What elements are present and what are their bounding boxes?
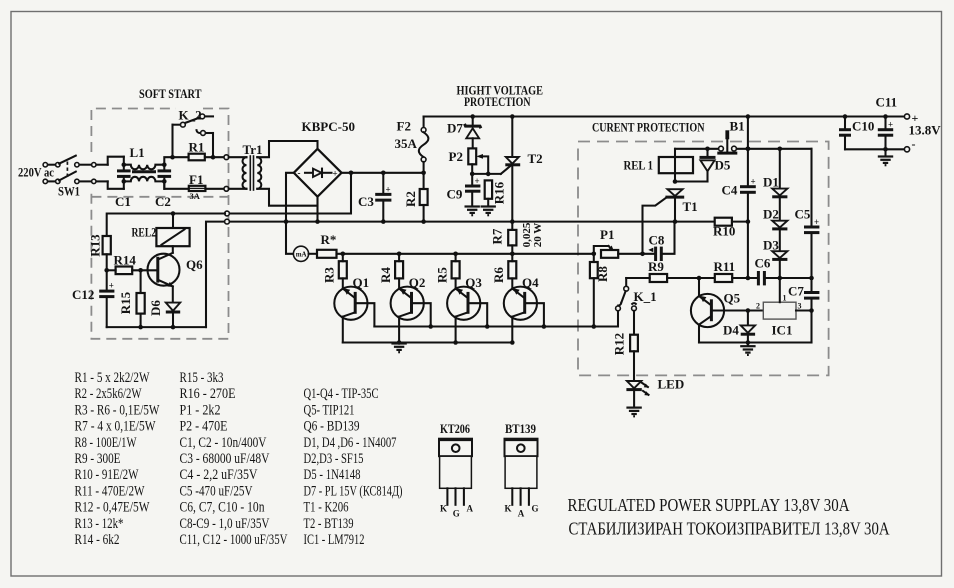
svg-text:R1 - 5 x 2k2/2W: R1 - 5 x 2k2/2W — [75, 370, 151, 386]
svg-text:D2: D2 — [763, 207, 779, 222]
capacitor C3 — [358, 171, 391, 224]
resistor R6 — [491, 254, 516, 283]
svg-text:C6: C6 — [755, 256, 771, 271]
svg-text:C2: C2 — [155, 194, 171, 209]
svg-text:C3: C3 — [358, 194, 374, 209]
svg-text:R13: R13 — [87, 234, 102, 257]
svg-text:D5: D5 — [715, 158, 731, 173]
svg-text:T1 - K206: T1 - K206 — [304, 500, 349, 516]
svg-text:Q6 - BD139: Q6 - BD139 — [304, 419, 360, 435]
emitter resistor chain line — [337, 253, 594, 255]
svg-text:G: G — [453, 509, 460, 519]
svg-text:BT139: BT139 — [505, 421, 536, 436]
ground under D4 — [740, 346, 755, 355]
parts list column 2 — [180, 370, 288, 548]
ground under C11 — [878, 157, 893, 166]
diode D2 — [763, 207, 787, 252]
transistor Q6 — [148, 246, 204, 302]
svg-text:R14: R14 — [114, 253, 137, 268]
svg-text:C10: C10 — [852, 119, 874, 134]
svg-text:R16 - 270E: R16 - 270E — [180, 386, 236, 402]
svg-text:C11, C12 - 1000 uF/35V: C11, C12 - 1000 uF/35V — [180, 532, 288, 548]
capacitor C7 — [788, 278, 819, 343]
resistor R15 — [118, 270, 145, 327]
svg-text:IC1: IC1 — [772, 323, 793, 338]
svg-text:SW1: SW1 — [58, 184, 80, 199]
svg-text:R1: R1 — [189, 140, 205, 155]
wire secondary bottom to bridge — [257, 189, 317, 206]
resistor R12 — [611, 333, 637, 381]
potentiometer P1 — [592, 227, 643, 258]
svg-text:CURENT PROTECTION: CURENT PROTECTION — [592, 120, 705, 135]
wire bridge bottom to negative bus — [316, 197, 318, 222]
relay coil REL2 — [132, 211, 190, 246]
ground on collector bus — [391, 344, 406, 353]
svg-text:R3: R3 — [321, 267, 336, 283]
shunt resistor R7 0.025 20W — [489, 222, 544, 254]
capacitor C11 — [876, 95, 898, 156]
output terminal plus — [904, 114, 909, 119]
svg-text:Tr1: Tr1 — [243, 142, 263, 157]
svg-text:R2: R2 — [403, 191, 418, 207]
svg-text:R13 - 12k*: R13 - 12k* — [75, 516, 124, 532]
svg-text:KT206: KT206 — [440, 421, 470, 436]
svg-text:C12: C12 — [72, 287, 94, 302]
svg-text:mA: mA — [296, 251, 307, 259]
resistor R8 — [590, 254, 610, 327]
relay coil REL 1 — [624, 149, 694, 182]
REL2 feed line from plus — [107, 214, 225, 237]
ground under C9 — [465, 207, 480, 216]
capacitor C1 — [115, 157, 131, 209]
svg-text:K: K — [505, 504, 512, 514]
ground under LED — [626, 408, 641, 417]
svg-text:D4: D4 — [723, 323, 739, 338]
output terminal minus — [904, 147, 909, 152]
mA meter line from negative bus — [286, 222, 293, 254]
svg-text:IC1 - LM7912: IC1 - LM7912 — [304, 532, 365, 548]
transistor Q2 — [391, 275, 431, 343]
svg-text:C8-C9 - 1,0 uF/35V: C8-C9 - 1,0 uF/35V — [180, 516, 270, 532]
diode D4 — [723, 311, 755, 346]
svg-text:СТАБИЛИЗИРАН ТОКОИЗПРАВИТЕЛ 1: СТАБИЛИЗИРАН ТОКОИЗПРАВИТЕЛ 13,8V 30А — [569, 519, 890, 539]
svg-text:R15: R15 — [118, 291, 133, 314]
resistor R11 — [697, 259, 758, 282]
potentiometer P2 — [449, 148, 489, 174]
svg-text:C1: C1 — [115, 194, 131, 209]
transistor Q3 — [447, 275, 487, 343]
resistor R1 — [170, 140, 229, 161]
svg-text:R16: R16 — [491, 181, 506, 204]
soft start dashed box — [91, 109, 228, 339]
REL2 bottom return line — [107, 326, 206, 328]
svg-text:C4: C4 — [722, 183, 738, 198]
svg-text:D7: D7 — [447, 121, 463, 136]
capacitor C6 — [755, 256, 814, 286]
svg-text:P2: P2 — [449, 149, 463, 164]
resistor R13 — [87, 234, 110, 270]
svg-text:T1: T1 — [683, 199, 698, 214]
capacitor C4 — [722, 114, 756, 278]
diode D6 — [148, 300, 180, 328]
svg-text:K: K — [440, 504, 447, 514]
capacitor C5 — [795, 149, 820, 278]
resistor R16 — [485, 180, 507, 205]
svg-text:R14 - 6k2: R14 - 6k2 — [75, 532, 120, 548]
switch SW1 mechanical link (dashed) — [66, 162, 68, 178]
capacitor C2 — [155, 162, 171, 209]
parts list column 3 — [304, 386, 403, 548]
svg-text:C6, C7, C10 - 10n: C6, C7, C10 - 10n — [180, 500, 265, 516]
svg-text:D6: D6 — [148, 300, 163, 316]
base bus of Q1-Q4 to R8 and K_1 — [374, 311, 618, 327]
wire C2 jog to R1 row — [164, 157, 188, 165]
svg-text:3A: 3A — [190, 191, 201, 201]
resistor R10 — [713, 218, 735, 239]
svg-text:P1 - 2k2: P1 - 2k2 — [180, 402, 221, 418]
current protection dashed box — [578, 142, 829, 376]
capacitor C10 — [839, 114, 874, 149]
transistor Q5 — [691, 278, 763, 343]
jumper B1 — [717, 119, 744, 155]
wire secondary top to bridge — [257, 141, 317, 157]
svg-text:C8: C8 — [649, 233, 665, 248]
thyristor T1 — [640, 189, 697, 256]
capacitor C12 — [72, 270, 114, 327]
input terminals top row — [43, 163, 108, 167]
svg-text:R*: R* — [321, 232, 337, 247]
negative bus main — [229, 221, 748, 223]
svg-text:REL 1: REL 1 — [624, 158, 654, 173]
svg-text:C9: C9 — [447, 187, 463, 202]
svg-text:220V ac: 220V ac — [18, 165, 54, 180]
svg-text:1: 1 — [783, 294, 787, 303]
svg-text:Q5: Q5 — [724, 291, 741, 306]
svg-text:C5 -470 uF/25V: C5 -470 uF/25V — [180, 483, 253, 499]
fuse F2 35A — [395, 117, 429, 173]
bridge rectifier KBPC-50 — [294, 119, 355, 197]
svg-text:+: + — [475, 176, 480, 186]
svg-text:+: + — [814, 217, 819, 227]
svg-text:-: - — [298, 168, 301, 178]
IC1 LM7912 — [756, 278, 814, 338]
wire bridge minus to negative bus — [286, 173, 294, 222]
thyristor T2 — [501, 114, 543, 224]
svg-text:D1: D1 — [763, 175, 779, 190]
node line P2/C9/R16 to T2 gate — [472, 173, 501, 175]
resistor R2 — [403, 171, 428, 224]
svg-text:B1: B1 — [730, 119, 745, 134]
terminal circle on box edge line1 — [225, 211, 230, 216]
svg-text:F2: F2 — [397, 119, 411, 134]
svg-text:L1: L1 — [130, 145, 145, 160]
capacitor C9 — [447, 174, 481, 206]
svg-text:Q1-Q4 - TIP-35C: Q1-Q4 - TIP-35C — [304, 386, 379, 402]
diode D5 — [700, 147, 731, 182]
resistor R5 — [434, 254, 459, 283]
svg-text:D2,D3 - SF15: D2,D3 - SF15 — [304, 451, 364, 467]
resistor R14 — [104, 253, 156, 275]
svg-text:R9 - 300E: R9 - 300E — [75, 451, 121, 467]
high voltage top bus — [424, 115, 907, 117]
collector bus of Q1-Q4 — [343, 341, 513, 343]
svg-text:C1, C2 - 10n/400V: C1, C2 - 10n/400V — [180, 435, 267, 451]
svg-text:PROTECTION: PROTECTION — [464, 94, 531, 109]
svg-text:+: + — [888, 120, 893, 130]
svg-text:P1: P1 — [600, 227, 614, 242]
transistor Q4 — [504, 275, 544, 343]
svg-text:2: 2 — [756, 302, 760, 311]
svg-text:C5: C5 — [795, 207, 811, 222]
svg-text:A: A — [467, 504, 474, 514]
node line B1 row — [675, 148, 719, 150]
svg-text:D1, D4 ,D6 - 1N4007: D1, D4 ,D6 - 1N4007 — [304, 435, 397, 451]
svg-text:R12 - 0,47E/5W: R12 - 0,47E/5W — [75, 500, 151, 516]
svg-text:R7 - 4 x 0,1E/5W: R7 - 4 x 0,1E/5W — [75, 419, 157, 435]
svg-text:R2 - 2x5k6/2W: R2 - 2x5k6/2W — [75, 386, 143, 402]
svg-text:Q5- TIP121: Q5- TIP121 — [304, 402, 355, 418]
svg-text:R4: R4 — [378, 267, 393, 283]
svg-text:T2 - BT139: T2 - BT139 — [304, 516, 354, 532]
transistor Q1 — [334, 275, 374, 343]
svg-text:KBPC-50: KBPC-50 — [302, 119, 355, 134]
input terminals bottom row — [43, 179, 108, 183]
svg-text:+: + — [333, 169, 338, 179]
resistor R* — [317, 232, 337, 258]
svg-text:D7 - PL 15V (КС814Д): D7 - PL 15V (КС814Д) — [304, 483, 403, 499]
switch K_1 — [616, 278, 657, 335]
svg-text:R11: R11 — [714, 259, 736, 274]
svg-text:REL2: REL2 — [132, 225, 157, 240]
svg-text:R3 - R6 - 0,1E/5W: R3 - R6 - 0,1E/5W — [75, 402, 161, 418]
wire bridge plus output line — [342, 172, 424, 174]
svg-text:+: + — [109, 281, 114, 291]
svg-text:Q6: Q6 — [186, 257, 203, 272]
svg-text:R7: R7 — [489, 228, 504, 244]
diode D3 — [763, 238, 787, 279]
svg-text:D5 - 1N4148: D5 - 1N4148 — [304, 467, 361, 483]
resistor R3 — [321, 254, 346, 283]
ground under R16 — [481, 207, 496, 216]
mA meter — [293, 246, 308, 261]
package drawing KT206 — [438, 421, 474, 519]
svg-text:T2: T2 — [528, 151, 543, 166]
svg-text:G: G — [532, 504, 539, 514]
svg-text:3: 3 — [798, 302, 802, 311]
svg-text:K_1: K_1 — [634, 289, 657, 304]
output minus line — [845, 148, 905, 150]
svg-text:C4 - 2,2 uF/35V: C4 - 2,2 uF/35V — [180, 467, 258, 483]
svg-text:LED: LED — [658, 377, 685, 392]
capacitor C8 — [643, 222, 675, 261]
svg-text:C7: C7 — [788, 284, 804, 299]
svg-text:+: + — [386, 185, 391, 195]
svg-text:R12: R12 — [611, 333, 626, 355]
choke L1 windings — [124, 145, 165, 181]
wire meter to R* — [309, 253, 317, 255]
node REL1/D5 junction to T1 anode — [675, 180, 708, 182]
zener diode D7 — [447, 114, 481, 148]
svg-text:20 W: 20 W — [532, 223, 544, 248]
resistor R9 — [626, 259, 715, 282]
svg-text:R9: R9 — [648, 259, 664, 274]
LED — [626, 377, 684, 407]
diode D1 — [763, 149, 787, 221]
transformer Tr1 — [229, 142, 263, 191]
svg-text:R15 - 3k3: R15 - 3k3 — [180, 370, 224, 386]
svg-text:R6: R6 — [491, 267, 506, 283]
svg-text:C3 - 68000 uF/48V: C3 - 68000 uF/48V — [180, 451, 270, 467]
wire plus feed down to REL2 line — [229, 173, 351, 214]
svg-text:-: - — [912, 137, 916, 151]
svg-text:13.8V: 13.8V — [909, 123, 942, 138]
svg-text:A: A — [518, 509, 525, 519]
wire input jog to C1 bottom — [108, 181, 124, 188]
svg-text:R5: R5 — [434, 267, 449, 283]
svg-text:35A: 35A — [395, 136, 418, 151]
resistor R4 — [378, 254, 403, 283]
svg-text:R8 - 100E/1W: R8 - 100E/1W — [75, 435, 138, 451]
svg-text:+: + — [751, 177, 756, 187]
wire negative bus to REL2 box — [206, 222, 225, 328]
wire input jog to C1 top — [108, 157, 124, 165]
fuse F1 — [189, 172, 229, 201]
svg-text:R10 - 91E/2W: R10 - 91E/2W — [75, 467, 140, 483]
svg-text:SOFT START: SOFT START — [139, 86, 202, 101]
emitter/ground return line under Q5 — [699, 341, 812, 343]
svg-text:REGULATED POWER SUPPLAY 13,8V: REGULATED POWER SUPPLAY 13,8V 30A — [568, 495, 850, 515]
parts list column 1 — [75, 370, 161, 548]
switch SW1 levers — [59, 156, 76, 164]
wire C2 jog to F1 row — [164, 181, 188, 188]
package drawing BT139 — [504, 421, 539, 519]
wire K_2 left leg — [171, 125, 173, 158]
svg-text:P2 - 470E: P2 - 470E — [180, 419, 228, 435]
wire K_2 right leg — [212, 133, 214, 157]
svg-text:R11 - 470E/2W: R11 - 470E/2W — [75, 483, 146, 499]
relay contact K_2 — [173, 108, 214, 136]
svg-text:C11: C11 — [876, 95, 898, 110]
